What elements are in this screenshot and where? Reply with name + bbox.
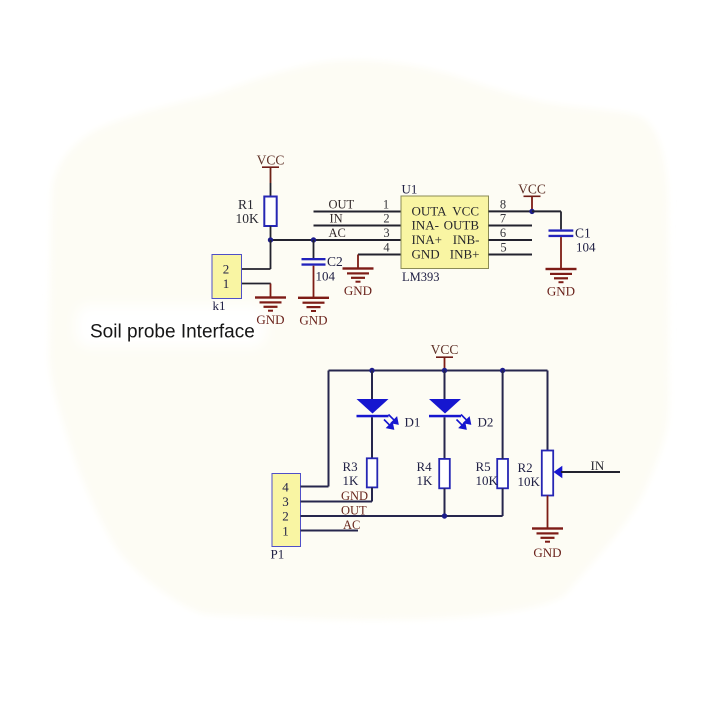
svg-text:GND: GND bbox=[412, 247, 440, 262]
svg-text:VCC: VCC bbox=[518, 181, 546, 196]
svg-text:GND: GND bbox=[341, 489, 368, 503]
svg-text:10K: 10K bbox=[518, 474, 541, 489]
svg-text:1: 1 bbox=[223, 276, 230, 291]
svg-text:VCC: VCC bbox=[452, 204, 479, 219]
svg-text:INB+: INB+ bbox=[450, 247, 480, 262]
svg-text:C1: C1 bbox=[575, 226, 591, 241]
svg-text:Soil probe Interface: Soil probe Interface bbox=[90, 322, 255, 343]
svg-text:1K: 1K bbox=[343, 473, 360, 488]
svg-text:VCC: VCC bbox=[257, 153, 285, 168]
svg-text:OUTB: OUTB bbox=[444, 218, 480, 233]
svg-text:2: 2 bbox=[282, 508, 289, 523]
svg-text:GND: GND bbox=[299, 312, 327, 327]
svg-text:D2: D2 bbox=[478, 415, 494, 430]
svg-text:AC: AC bbox=[343, 518, 360, 532]
svg-text:10K: 10K bbox=[236, 211, 260, 226]
svg-text:8: 8 bbox=[500, 197, 506, 211]
svg-text:GND: GND bbox=[256, 312, 284, 327]
svg-text:104: 104 bbox=[316, 269, 336, 284]
svg-text:OUT: OUT bbox=[329, 197, 355, 211]
svg-text:1K: 1K bbox=[417, 473, 434, 488]
svg-text:k1: k1 bbox=[213, 298, 226, 313]
svg-text:6: 6 bbox=[500, 226, 506, 240]
svg-text:R2: R2 bbox=[518, 460, 533, 475]
svg-text:C2: C2 bbox=[327, 254, 343, 269]
svg-text:R1: R1 bbox=[238, 197, 254, 212]
svg-text:2: 2 bbox=[383, 211, 389, 225]
svg-text:GND: GND bbox=[533, 545, 561, 560]
svg-text:2: 2 bbox=[223, 261, 230, 276]
svg-text:OUT: OUT bbox=[341, 504, 367, 518]
svg-text:AC: AC bbox=[329, 226, 346, 240]
svg-text:104: 104 bbox=[576, 239, 596, 254]
svg-text:10K: 10K bbox=[476, 473, 499, 488]
svg-text:GND: GND bbox=[547, 284, 575, 299]
svg-text:1: 1 bbox=[383, 197, 389, 211]
svg-text:IN: IN bbox=[591, 458, 605, 473]
svg-text:VCC: VCC bbox=[431, 342, 459, 357]
svg-text:U1: U1 bbox=[402, 181, 418, 196]
svg-text:5: 5 bbox=[500, 240, 506, 254]
svg-text:LM393: LM393 bbox=[402, 270, 440, 284]
svg-text:R4: R4 bbox=[417, 459, 433, 474]
svg-text:R5: R5 bbox=[476, 459, 491, 474]
svg-text:INA+: INA+ bbox=[412, 232, 442, 247]
svg-text:1: 1 bbox=[282, 523, 289, 538]
svg-text:P1: P1 bbox=[271, 547, 285, 562]
svg-text:4: 4 bbox=[383, 240, 390, 254]
svg-text:7: 7 bbox=[500, 211, 506, 225]
svg-text:IN: IN bbox=[330, 211, 343, 225]
svg-text:INA-: INA- bbox=[412, 218, 439, 233]
svg-text:D1: D1 bbox=[405, 415, 421, 430]
svg-text:R3: R3 bbox=[343, 459, 358, 474]
svg-text:GND: GND bbox=[344, 283, 372, 298]
svg-text:3: 3 bbox=[282, 494, 289, 509]
svg-text:OUTA: OUTA bbox=[412, 204, 448, 219]
svg-text:4: 4 bbox=[282, 479, 289, 494]
svg-text:INB-: INB- bbox=[453, 232, 480, 247]
svg-text:3: 3 bbox=[383, 226, 389, 240]
